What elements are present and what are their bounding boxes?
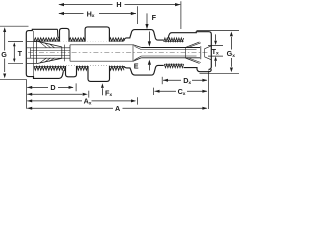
dim G line/arrows — [4, 32, 6, 72]
right nut outline bottom — [184, 68, 212, 72]
dim G extensions — [0, 25, 29, 27]
dim Fx arrow — [101, 88, 103, 95]
svg-text:A: A — [115, 104, 120, 113]
dim Hx line — [59, 13, 136, 15]
dim Gx arrows — [230, 37, 232, 67]
dim line to locknut face — [27, 93, 82, 95]
left nut internal bore lines — [27, 41, 37, 43]
dim Tx arrows — [215, 34, 217, 40]
right nut socket face — [200, 46, 202, 59]
dim Cx line — [155, 90, 208, 92]
dim T line/arrows — [13, 46, 15, 61]
dim Gx extensions — [197, 31, 240, 74]
dim T ticks — [8, 42, 23, 64]
dim D extension — [75, 83, 77, 91]
dim E lower arrow — [148, 65, 150, 71]
left nut internal verticals — [30, 48, 32, 58]
svg-text:G: G — [1, 50, 7, 59]
dim Ax line — [27, 100, 135, 102]
dim Dx line — [163, 79, 207, 81]
dim D line — [27, 86, 73, 88]
left nut bottom-body step — [63, 70, 65, 72]
svg-text:T: T — [18, 49, 23, 58]
tube inner lines — [141, 49, 196, 51]
dim Tx ticks — [208, 45, 223, 56]
body hex B top — [124, 30, 164, 41]
left nut groove to body — [58, 29, 60, 38]
body hex B bottom — [124, 65, 164, 75]
dim Cx left extension — [152, 88, 154, 95]
dim E upper arrow — [148, 32, 150, 42]
svg-text:H: H — [116, 0, 121, 9]
body back face vertical — [63, 45, 65, 62]
right extension column — [207, 71, 209, 109]
left ferrule hatch bottom — [40, 58, 55, 63]
right thread ribbon bottom — [164, 64, 183, 68]
body collar bump 1 top — [60, 28, 70, 41]
centerline — [28, 52, 208, 54]
tube end face in body — [69, 45, 71, 61]
body hex bump 2 top — [85, 27, 109, 42]
left ferrule hatch top — [40, 42, 55, 48]
right nut ferrule wedge — [186, 42, 200, 64]
body bore lines — [70, 44, 133, 46]
dim F arrow — [146, 13, 148, 24]
bulkhead locknut bottom — [88, 66, 110, 81]
left extension column — [26, 79, 28, 108]
dim Ax extension — [136, 97, 138, 104]
tube outer lines — [141, 47, 200, 49]
dim Dx left extension — [161, 77, 163, 84]
body collar bump 1 bottom — [66, 66, 77, 77]
dim A line — [27, 107, 207, 109]
thread ribbon top (nut to hex B) — [34, 38, 124, 41]
right nut bore flare — [205, 46, 212, 60]
ferrule wedge — [37, 41, 62, 63]
svg-text:F: F — [152, 13, 157, 22]
bore taper cone — [133, 45, 141, 61]
right thread ribbon top — [164, 38, 184, 42]
dim Hx extension — [136, 6, 138, 24]
left nut outline — [26, 29, 63, 78]
thread ribbon bottom — [34, 66, 124, 70]
svg-text:E: E — [134, 62, 139, 71]
dim H line — [59, 4, 181, 6]
dim H right extension — [180, 1, 182, 29]
svg-text:D: D — [50, 83, 55, 92]
right nut outline top — [168, 32, 211, 70]
